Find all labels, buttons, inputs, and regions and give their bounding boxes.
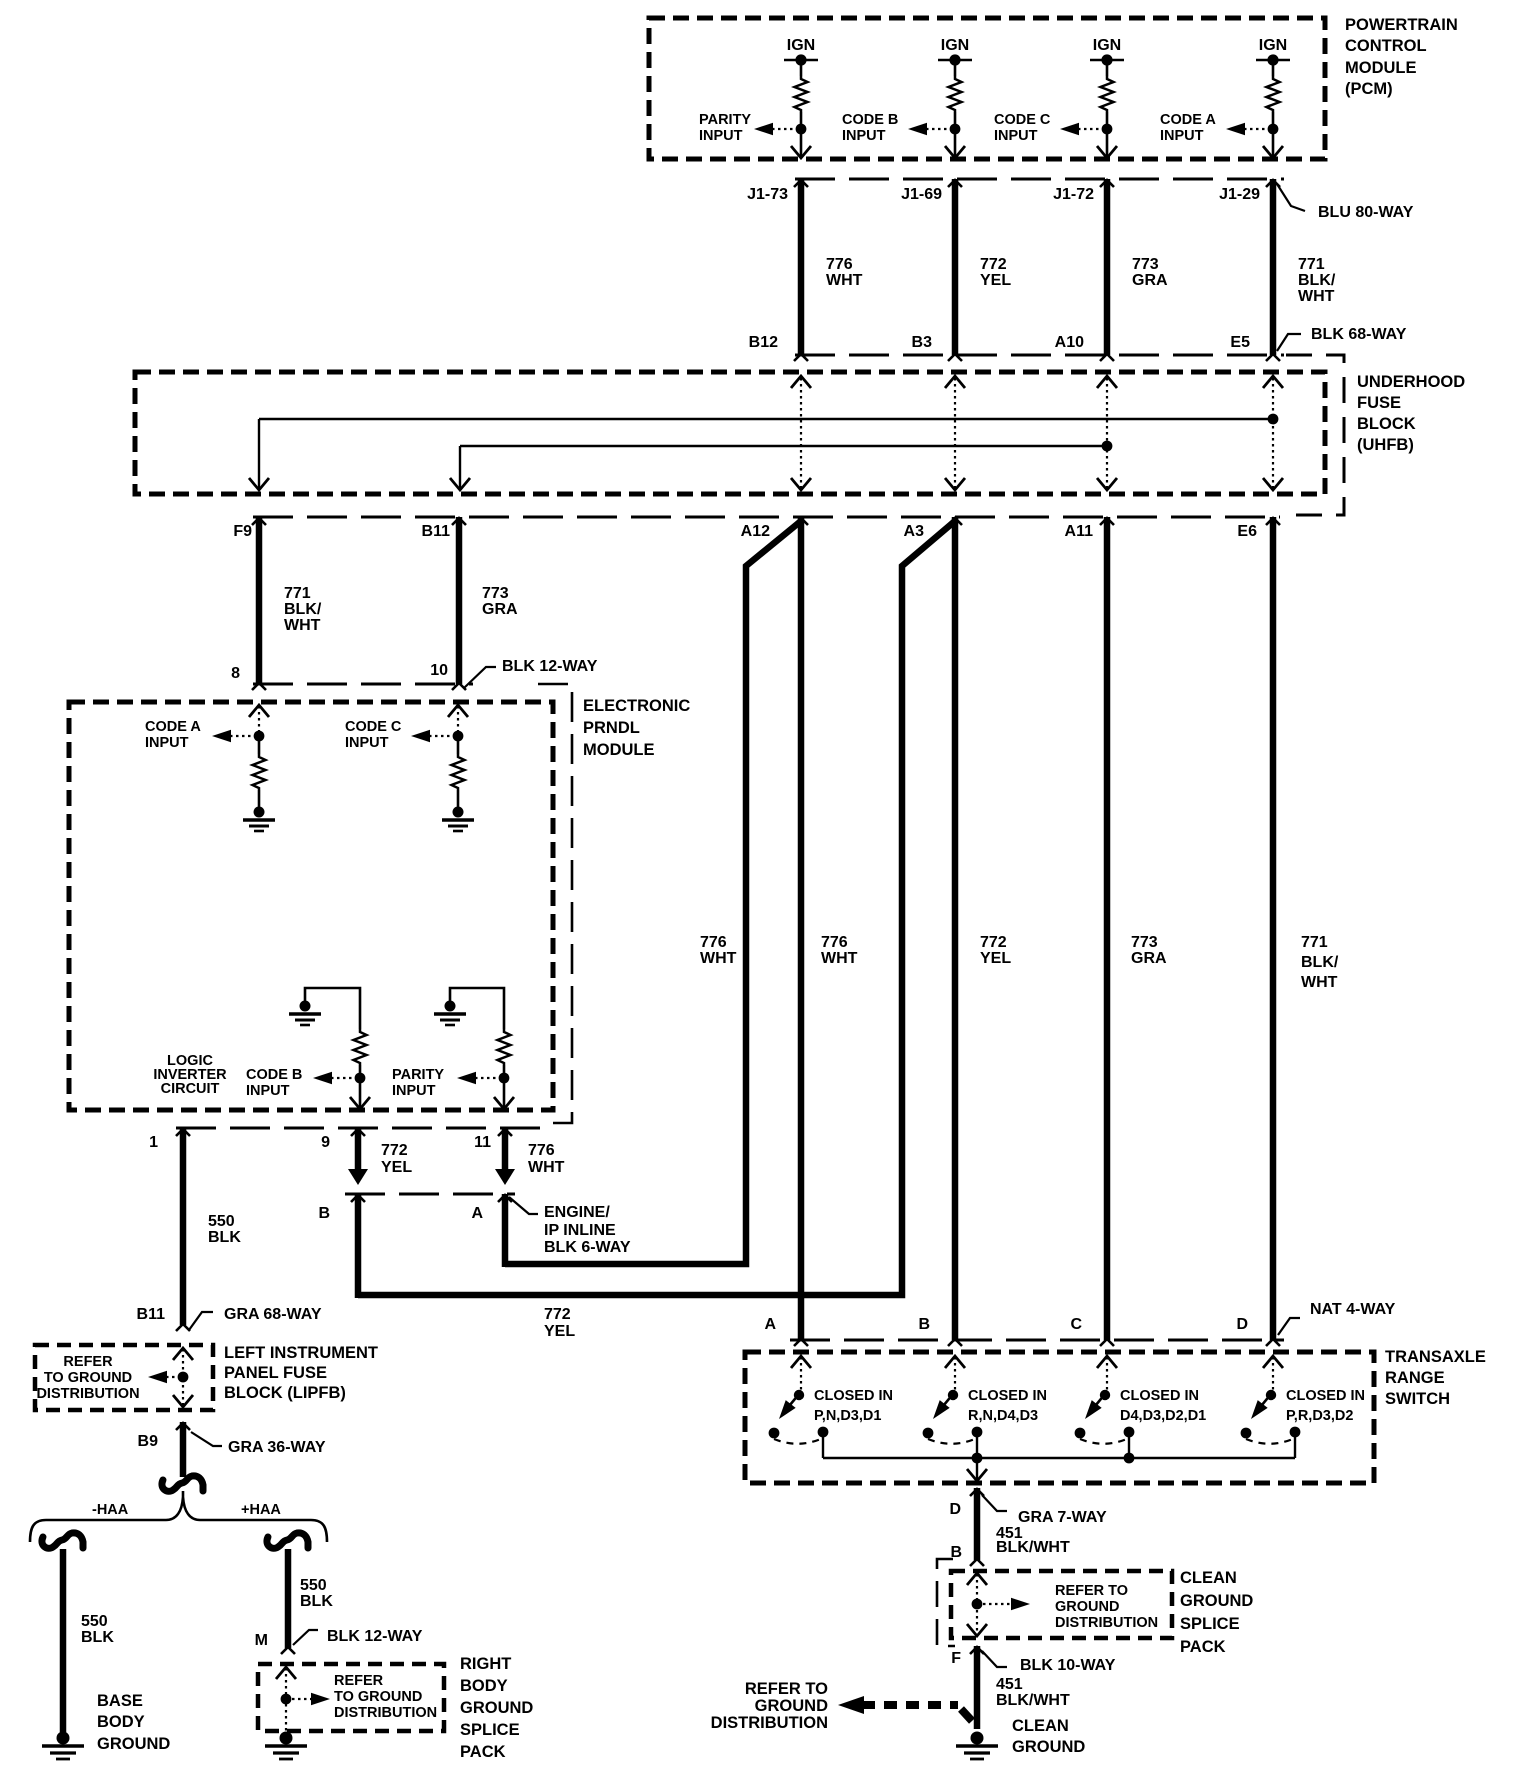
ground (base body) — [42, 1732, 84, 1760]
wire 771 BLK/WHT F9 to pin 8 — [256, 517, 263, 684]
connector row below PRNDL — [176, 1127, 545, 1130]
dashed wire to ground distribution — [862, 1701, 958, 1709]
arrow PARITY INPUT — [457, 1072, 476, 1085]
svg-text:CODE A: CODE A — [145, 719, 201, 735]
TRS exit wire — [976, 1458, 978, 1479]
svg-text:REFER TO: REFER TO — [1055, 1583, 1128, 1599]
resistor (CODE A pull-down) — [253, 754, 266, 790]
Electronic PRNDL Module box (dashed) — [69, 702, 553, 1110]
svg-text:PACK: PACK — [460, 1743, 506, 1761]
svg-text:TO GROUND: TO GROUND — [44, 1370, 132, 1386]
connector row BLK 12-WAY — [253, 683, 473, 686]
svg-text:771: 771 — [1298, 256, 1325, 273]
wire node down to PCM edge — [954, 129, 957, 156]
switch B (TRS) — [945, 1356, 965, 1368]
UHFB internal path col B3 — [954, 378, 956, 488]
svg-text:BLK 6-WAY: BLK 6-WAY — [544, 1239, 631, 1256]
svg-text:550: 550 — [208, 1213, 235, 1230]
dashed wire elbow — [961, 1709, 972, 1721]
connector flare top — [948, 180, 962, 187]
svg-text:CIRCUIT: CIRCUIT — [161, 1081, 220, 1097]
svg-text:INPUT: INPUT — [842, 128, 886, 144]
leader NAT 4-WAY — [1278, 1318, 1300, 1335]
svg-text:J1-73: J1-73 — [747, 186, 788, 203]
connector row ENGINE/IP inline — [345, 1193, 515, 1196]
PRNDL connector outline bracket — [538, 684, 572, 1123]
ground (CODE C) — [442, 807, 474, 832]
connector flare top — [1266, 180, 1280, 187]
wire 776 WHT pin down — [502, 1128, 509, 1172]
wire node to CODE C arrow — [1078, 128, 1107, 130]
svg-text:REFER: REFER — [63, 1354, 113, 1370]
leader BLK 12-WAY — [464, 667, 496, 688]
connector flare bottom — [1266, 354, 1280, 361]
svg-text:E6: E6 — [1237, 523, 1257, 540]
wire 772 YEL inline B down — [355, 1194, 362, 1298]
CGSP connector outline bracket — [937, 1559, 955, 1646]
switch D (TRS) — [1263, 1356, 1283, 1368]
UHFB internal drop to F9 — [258, 419, 260, 488]
resistor (CODE B) — [354, 1029, 367, 1065]
svg-text:776: 776 — [700, 934, 727, 951]
svg-text:D: D — [949, 1501, 961, 1518]
svg-text:773: 773 — [1132, 256, 1159, 273]
wire resistor to node — [1272, 112, 1275, 124]
svg-text:BLK: BLK — [81, 1629, 114, 1646]
svg-text:GRA 7-WAY: GRA 7-WAY — [1018, 1509, 1107, 1526]
node PARITY — [499, 1073, 510, 1084]
Underhood Fuse Block box (dashed) — [135, 372, 1325, 494]
wire node to CODE A arrow — [1244, 128, 1273, 130]
svg-text:PRNDL: PRNDL — [583, 719, 640, 737]
svg-text:UNDERHOOD: UNDERHOOD — [1357, 373, 1465, 391]
arrow CODE A INPUT — [212, 730, 231, 743]
arrowhead up CODE A — [249, 705, 269, 717]
svg-text:776: 776 — [528, 1142, 555, 1159]
wire node down to PCM edge — [1272, 129, 1275, 156]
wire 772 YEL pin down — [355, 1128, 362, 1172]
svg-text:DISTRIBUTION: DISTRIBUTION — [711, 1714, 828, 1732]
svg-text:B: B — [318, 1205, 330, 1222]
svg-text:MODULE: MODULE — [1345, 59, 1417, 77]
resistor R1 (PCM PARITY pull-up) — [795, 76, 808, 112]
svg-text:10: 10 — [430, 662, 448, 679]
svg-text:F9: F9 — [233, 523, 252, 540]
svg-text:E5: E5 — [1230, 334, 1250, 351]
wire 550 BLK to base body ground — [60, 1549, 67, 1734]
wire resistor to node — [1106, 112, 1109, 124]
switch A (TRS) — [791, 1356, 811, 1368]
connector row below UHFB — [253, 516, 1280, 519]
wire IGN to resistor 2 — [954, 60, 957, 76]
svg-text:9: 9 — [321, 1134, 330, 1151]
svg-text:CLEAN: CLEAN — [1012, 1717, 1069, 1735]
wire ground to resistor PARITY — [450, 988, 504, 1029]
connector flare top — [1100, 180, 1114, 187]
svg-text:REFER: REFER — [334, 1673, 384, 1689]
svg-text:776: 776 — [826, 256, 853, 273]
wire resistor to node — [954, 112, 957, 124]
svg-text:CLEAN: CLEAN — [1180, 1569, 1237, 1587]
svg-text:J1-72: J1-72 — [1053, 186, 1094, 203]
ground (CODE A) — [243, 807, 275, 832]
junction bus-C — [1124, 1453, 1135, 1464]
svg-text:DISTRIBUTION: DISTRIBUTION — [36, 1386, 139, 1402]
svg-text:A11: A11 — [1065, 523, 1094, 540]
connector flare top — [794, 180, 808, 187]
UHFB internal wire 773 to B11 — [460, 445, 1107, 447]
wire 772 YEL A3 to TRS — [952, 517, 959, 1340]
svg-text:PANEL FUSE: PANEL FUSE — [224, 1364, 327, 1382]
resistor R4 (PCM CODE A pull-up) — [1267, 76, 1280, 112]
node PARITY junction — [796, 124, 807, 135]
svg-text:GROUND: GROUND — [1055, 1599, 1119, 1615]
wire 776 WHT PCM to UHFB — [798, 179, 805, 355]
svg-text:BLK 10-WAY: BLK 10-WAY — [1020, 1657, 1116, 1674]
svg-text:IGN: IGN — [1093, 37, 1121, 54]
UHFB internal path col E5 — [1272, 378, 1274, 488]
svg-text:YEL: YEL — [980, 272, 1011, 289]
svg-text:PACK: PACK — [1180, 1638, 1226, 1656]
svg-text:INPUT: INPUT — [699, 128, 743, 144]
RBGSP internal wire — [285, 1668, 287, 1735]
svg-text:CODE A: CODE A — [1160, 112, 1216, 128]
junction A10 path — [1102, 441, 1113, 452]
svg-text:GRA: GRA — [1131, 950, 1167, 967]
wire 771 BLK/WHT E6 to TRS — [1270, 517, 1277, 1340]
arrowhead down at PCM edge — [1263, 146, 1283, 158]
svg-text:A: A — [471, 1205, 483, 1222]
svg-text:+HAA: +HAA — [241, 1502, 281, 1518]
UHFB internal path col A10 — [1106, 378, 1108, 488]
wire 550 BLK pin 1 to B11 — [180, 1128, 187, 1325]
leader GRA 68-WAY — [189, 1312, 213, 1330]
resistor (CODE C pull-down) — [452, 754, 465, 790]
svg-text:REFER TO: REFER TO — [745, 1680, 828, 1698]
svg-text:771: 771 — [284, 585, 311, 602]
svg-text:WHT: WHT — [826, 272, 863, 289]
svg-text:8: 8 — [231, 665, 240, 682]
svg-text:BLOCK: BLOCK — [1357, 415, 1416, 433]
wire 776 WHT branch A12 to inline A — [505, 521, 801, 1264]
svg-text:CLOSED IN: CLOSED IN — [814, 1388, 893, 1404]
svg-text:CODE B: CODE B — [842, 112, 898, 128]
wire resistor to node — [800, 112, 803, 124]
wire into module — [258, 706, 260, 731]
UHFB internal drop to B11 — [459, 446, 461, 488]
svg-text:P,R,D3,D2: P,R,D3,D2 — [1286, 1408, 1353, 1424]
arrowhead down at PCM edge — [945, 146, 965, 158]
svg-text:773: 773 — [482, 585, 509, 602]
svg-text:YEL: YEL — [980, 950, 1011, 967]
svg-text:BLK 12-WAY: BLK 12-WAY — [327, 1628, 423, 1645]
wire node to resistor — [258, 736, 261, 754]
node RBGSP — [281, 1694, 292, 1705]
wire node down to PCM edge — [800, 129, 803, 156]
svg-text:D4,D3,D2,D1: D4,D3,D2,D1 — [1120, 1408, 1206, 1424]
arrow to ground distribution (CGSP) — [1011, 1598, 1030, 1611]
svg-text:BASE: BASE — [97, 1692, 143, 1710]
wire 550 BLK to RBGSP — [285, 1549, 292, 1648]
svg-text:B11: B11 — [422, 523, 451, 540]
connector row NAT 4-WAY — [790, 1339, 1284, 1342]
wire 776 WHT A12 to TRS — [798, 517, 805, 1340]
wire node down to module edge — [503, 1078, 506, 1107]
junction bus-exit — [972, 1453, 983, 1464]
svg-text:POWERTRAIN: POWERTRAIN — [1345, 16, 1458, 34]
inline connector hooks (-HAA) — [42, 1533, 83, 1548]
svg-text:GRA 36-WAY: GRA 36-WAY — [228, 1439, 326, 1456]
svg-text:773: 773 — [1131, 934, 1158, 951]
svg-text:BODY: BODY — [460, 1677, 508, 1695]
svg-text:PARITY: PARITY — [699, 112, 751, 128]
svg-text:GROUND: GROUND — [755, 1697, 828, 1715]
arrow to ground distribution (RBGSP) — [311, 1693, 330, 1706]
svg-text:776: 776 — [821, 934, 848, 951]
svg-text:DISTRIBUTION: DISTRIBUTION — [334, 1705, 437, 1721]
svg-text:GRA 68-WAY: GRA 68-WAY — [224, 1306, 322, 1323]
svg-text:CONTROL: CONTROL — [1345, 37, 1427, 55]
wire 773 GRA B11 to pin 10 — [456, 517, 463, 684]
svg-text:CODE C: CODE C — [345, 719, 402, 735]
leader BLK 68-WAY — [1277, 334, 1301, 351]
arrowhead down at PCM edge — [1097, 146, 1117, 158]
connector row BLU 80-WAY — [795, 178, 1284, 181]
leader GRA 7-WAY — [982, 1495, 1007, 1511]
node CODE B — [355, 1073, 366, 1084]
svg-text:WHT: WHT — [821, 950, 858, 967]
svg-text:550: 550 — [81, 1613, 108, 1630]
brace HAA split — [30, 1491, 327, 1542]
svg-text:GRA: GRA — [482, 601, 518, 618]
svg-text:451: 451 — [996, 1676, 1023, 1693]
svg-text:IGN: IGN — [787, 37, 815, 54]
svg-text:BLK 68-WAY: BLK 68-WAY — [1311, 326, 1407, 343]
wire node down to module edge — [359, 1078, 362, 1107]
svg-text:FUSE: FUSE — [1357, 394, 1401, 412]
svg-text:GRA: GRA — [1132, 272, 1168, 289]
svg-text:BLK/WHT: BLK/WHT — [996, 1539, 1070, 1556]
UHFB internal wire 771 to F9 — [259, 418, 1273, 420]
svg-text:772: 772 — [381, 1142, 408, 1159]
wire resistor to ground — [457, 790, 460, 807]
svg-text:B12: B12 — [749, 334, 778, 351]
connector flare bottom — [948, 354, 962, 361]
svg-text:NAT 4-WAY: NAT 4-WAY — [1310, 1301, 1396, 1318]
Clean Ground Splice Pack box — [951, 1571, 1172, 1638]
arrowhead down at PCM edge — [791, 146, 811, 158]
svg-text:RIGHT: RIGHT — [460, 1655, 511, 1673]
svg-text:SPLICE: SPLICE — [460, 1721, 520, 1739]
svg-text:A12: A12 — [741, 523, 770, 540]
svg-text:INPUT: INPUT — [1160, 128, 1204, 144]
LIPFB internal wire — [182, 1349, 184, 1406]
svg-text:BLK/: BLK/ — [1301, 954, 1339, 971]
TRS common bus — [823, 1457, 1295, 1459]
node CGSP — [972, 1599, 983, 1610]
svg-text:550: 550 — [300, 1577, 327, 1594]
svg-text:MODULE: MODULE — [583, 741, 655, 759]
svg-text:INPUT: INPUT — [994, 128, 1038, 144]
svg-text:INPUT: INPUT — [145, 735, 189, 751]
svg-text:GROUND: GROUND — [1180, 1592, 1253, 1610]
wire 772 YEL branch A3 to inline B — [358, 521, 955, 1295]
ground (RBGSP) — [265, 1732, 307, 1760]
wire into module — [457, 706, 459, 731]
svg-text:IGN: IGN — [1259, 37, 1287, 54]
wire 772 YEL PCM to UHFB — [952, 179, 959, 355]
arrowhead down at module edge — [494, 1097, 514, 1109]
svg-text:B11: B11 — [137, 1306, 166, 1323]
wire node to PARITY arrow — [772, 128, 801, 130]
svg-text:1: 1 — [149, 1134, 158, 1151]
svg-text:WHT: WHT — [1301, 974, 1338, 991]
node CODE C junction — [1102, 124, 1113, 135]
svg-text:YEL: YEL — [381, 1159, 412, 1176]
PCM module box (dashed) — [649, 18, 1325, 159]
svg-text:IP INLINE: IP INLINE — [544, 1222, 616, 1239]
UHFB connector outline bracket — [1282, 355, 1344, 515]
connector flare bottom — [794, 354, 808, 361]
inline connector hooks (B9) — [162, 1476, 203, 1491]
leader GRA 36-WAY — [191, 1432, 222, 1446]
node LIPFB — [178, 1372, 189, 1383]
arrow CODE C INPUT — [1060, 123, 1079, 136]
svg-text:772: 772 — [980, 934, 1007, 951]
node CODE A junction — [1268, 124, 1279, 135]
arrow PARITY INPUT — [754, 123, 773, 136]
svg-text:(PCM): (PCM) — [1345, 80, 1393, 98]
svg-text:BLU 80-WAY: BLU 80-WAY — [1318, 204, 1414, 221]
svg-text:B9: B9 — [138, 1433, 159, 1450]
arrow CODE A INPUT — [1226, 123, 1245, 136]
connector row BLK 68-WAY — [795, 354, 1284, 357]
wire 773 GRA A11 to TRS — [1104, 517, 1111, 1340]
svg-text:M: M — [255, 1632, 268, 1649]
svg-text:GROUND: GROUND — [1012, 1738, 1085, 1756]
wire 451 BLK/WHT TRS to CGSP — [974, 1488, 981, 1560]
svg-text:CODE C: CODE C — [994, 112, 1051, 128]
arrowhead at TRS edge — [967, 1469, 987, 1481]
wire node down to PCM edge — [1106, 129, 1109, 156]
svg-text:ELECTRONIC: ELECTRONIC — [583, 697, 690, 715]
svg-text:LEFT INSTRUMENT: LEFT INSTRUMENT — [224, 1344, 378, 1362]
svg-text:WHT: WHT — [1298, 288, 1335, 305]
svg-text:WHT: WHT — [700, 950, 737, 967]
svg-text:RANGE: RANGE — [1385, 1369, 1445, 1387]
arrow CODE B INPUT — [313, 1072, 332, 1085]
svg-text:YEL: YEL — [544, 1323, 575, 1340]
Right Body Ground Splice Pack box — [258, 1664, 444, 1731]
svg-text:INPUT: INPUT — [246, 1083, 290, 1099]
svg-text:-HAA: -HAA — [92, 1502, 129, 1518]
svg-text:A10: A10 — [1055, 334, 1084, 351]
leader BLK 12-WAY (M) — [293, 1630, 318, 1645]
arrowhead down at module edge — [350, 1097, 370, 1109]
Transaxle Range Switch box (dashed) — [745, 1352, 1374, 1483]
arrow to ground distribution — [148, 1371, 167, 1384]
wire 773 GRA PCM to UHFB — [1104, 179, 1111, 355]
leader BLK 10-WAY — [982, 1651, 1007, 1667]
wire 776 WHT inline A down — [502, 1194, 509, 1267]
svg-text:CLOSED IN: CLOSED IN — [968, 1388, 1047, 1404]
ground (CODE B) — [289, 1001, 321, 1026]
svg-text:BLK 12-WAY: BLK 12-WAY — [502, 658, 598, 675]
svg-text:BLK: BLK — [300, 1593, 333, 1610]
svg-text:CLOSED IN: CLOSED IN — [1286, 1388, 1365, 1404]
resistor (PARITY) — [498, 1029, 511, 1065]
UHFB internal path col B12 — [800, 378, 802, 488]
svg-text:TO GROUND: TO GROUND — [334, 1689, 422, 1705]
svg-text:P,N,D3,D1: P,N,D3,D1 — [814, 1408, 881, 1424]
svg-text:PARITY: PARITY — [392, 1067, 444, 1083]
connector flare bottom — [1100, 354, 1114, 361]
arrow CODE C INPUT — [411, 730, 430, 743]
wire IGN to resistor 3 — [1106, 60, 1109, 76]
ground (clean ground) — [956, 1732, 998, 1760]
svg-text:A: A — [764, 1316, 776, 1333]
svg-text:771: 771 — [1301, 934, 1328, 951]
leader BLU 80-WAY — [1277, 184, 1305, 211]
node CODE C — [453, 731, 464, 742]
wire 771 BLK/ WHT PCM to UHFB — [1270, 179, 1277, 355]
wire node to CODE B arrow — [926, 128, 955, 130]
svg-text:BODY: BODY — [97, 1713, 145, 1731]
svg-text:GROUND: GROUND — [460, 1699, 533, 1717]
leader ENGINE/IP INLINE — [509, 1197, 538, 1214]
Left IP Fuse Block box (dashed) — [35, 1345, 213, 1410]
junction E5 path — [1268, 414, 1279, 425]
node CODE B junction — [950, 124, 961, 135]
node CODE A — [254, 731, 265, 742]
svg-text:WHT: WHT — [528, 1159, 565, 1176]
svg-text:(UHFB): (UHFB) — [1357, 436, 1414, 454]
svg-text:WHT: WHT — [284, 617, 321, 634]
svg-text:BLK/: BLK/ — [284, 601, 322, 618]
CGSP internal wire — [976, 1574, 978, 1635]
arrowhead at F9 — [249, 478, 269, 490]
svg-text:CLOSED IN: CLOSED IN — [1120, 1388, 1199, 1404]
svg-text:BLOCK (LIPFB): BLOCK (LIPFB) — [224, 1384, 346, 1402]
wire node to resistor — [457, 736, 460, 754]
svg-text:A3: A3 — [904, 523, 925, 540]
svg-text:772: 772 — [544, 1306, 571, 1323]
svg-text:J1-69: J1-69 — [901, 186, 942, 203]
svg-text:F: F — [951, 1650, 961, 1667]
svg-text:SPLICE: SPLICE — [1180, 1615, 1240, 1633]
svg-text:DISTRIBUTION: DISTRIBUTION — [1055, 1615, 1158, 1631]
resistor R3 (PCM CODE C pull-up) — [1101, 76, 1114, 112]
svg-text:GROUND: GROUND — [97, 1735, 170, 1753]
wire IGN to resistor 1 — [800, 60, 803, 76]
svg-text:B3: B3 — [912, 334, 933, 351]
svg-text:IGN: IGN — [941, 37, 969, 54]
arrowhead up CODE C — [448, 705, 468, 717]
inline connector hooks (+HAA) — [267, 1533, 308, 1548]
arrow CODE B INPUT — [908, 123, 927, 136]
svg-text:TRANSAXLE: TRANSAXLE — [1385, 1348, 1486, 1366]
svg-text:ENGINE/: ENGINE/ — [544, 1204, 610, 1221]
wire B9 to splice — [180, 1422, 187, 1477]
svg-text:772: 772 — [980, 256, 1007, 273]
svg-text:J1-29: J1-29 — [1219, 186, 1260, 203]
svg-text:D: D — [1236, 1316, 1248, 1333]
svg-text:R,N,D4,D3: R,N,D4,D3 — [968, 1408, 1038, 1424]
ground (PARITY) — [434, 1001, 466, 1026]
wire 451 BLK/WHT CGSP to clean ground — [974, 1646, 981, 1729]
wire IGN to resistor 4 — [1272, 60, 1275, 76]
resistor R2 (PCM CODE B pull-up) — [949, 76, 962, 112]
